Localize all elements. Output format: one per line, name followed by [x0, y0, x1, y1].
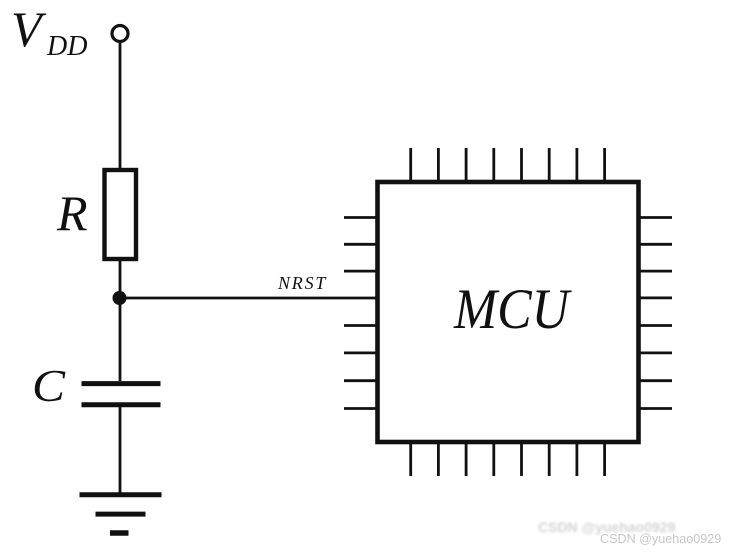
wire VDD to resistor [119, 42, 122, 169]
wire resistor to node [119, 259, 122, 298]
ground (3 bars) [80, 495, 162, 533]
wire capacitor to ground [119, 407, 122, 493]
svg-text:C: C [32, 360, 66, 411]
resistor R [105, 170, 137, 259]
MCU bottom pins [411, 444, 605, 476]
wire node to capacitor [119, 298, 122, 381]
svg-text:CSDN @yuehao0929: CSDN @yuehao0929 [600, 532, 721, 546]
svg-text:MCU: MCU [453, 278, 572, 341]
wire node to MCU NRST pin [120, 297, 380, 300]
MCU left pins [344, 218, 376, 409]
svg-text:R: R [56, 185, 88, 241]
svg-text:NRST: NRST [277, 273, 327, 293]
MCU right pins [640, 218, 672, 409]
MCU U1 body [378, 182, 639, 442]
svg-text:V: V [11, 1, 47, 57]
terminal VDD (open circle) [112, 26, 128, 42]
capacitor C bottom plate [82, 402, 161, 407]
capacitor C top plate [82, 381, 161, 386]
node junction (filled dot) [113, 291, 127, 305]
net label VDD [11, 1, 87, 62]
MCU top pins [411, 148, 605, 180]
svg-text:DD: DD [46, 31, 87, 62]
